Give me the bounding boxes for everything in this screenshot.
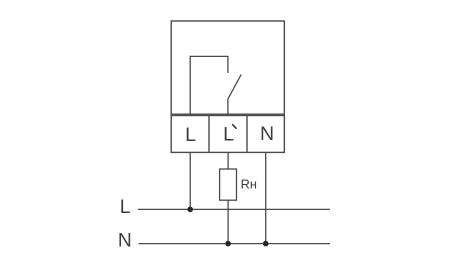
svg-text:N: N <box>118 231 132 252</box>
relay body outline <box>171 21 284 114</box>
grave tick of L` <box>233 125 236 128</box>
N bus line <box>139 243 331 245</box>
wire L terminal down to L bus <box>189 152 191 209</box>
terminal divider 2 <box>246 116 248 153</box>
wire blade to L` terminal <box>227 98 229 115</box>
wire L` terminal down to resistor <box>227 152 229 169</box>
junction dot L <box>187 207 193 213</box>
junction dot L` on N bus <box>225 241 231 247</box>
terminal block row <box>171 116 284 153</box>
resistor RH (load) <box>220 169 237 200</box>
svg-text:N: N <box>260 123 274 145</box>
svg-text:L: L <box>120 197 131 218</box>
wire resistor down to N bus <box>227 200 229 243</box>
svg-text:Rн: Rн <box>241 177 257 192</box>
junction dot N on N bus <box>263 241 269 247</box>
svg-text:L: L <box>223 124 234 146</box>
switch blade (open contact) <box>228 75 241 99</box>
wire N terminal down to N bus <box>265 152 267 243</box>
L bus line <box>138 208 330 210</box>
svg-text:L: L <box>185 124 196 146</box>
wire L terminal to contact <box>190 56 228 115</box>
terminal divider 1 <box>208 116 210 153</box>
